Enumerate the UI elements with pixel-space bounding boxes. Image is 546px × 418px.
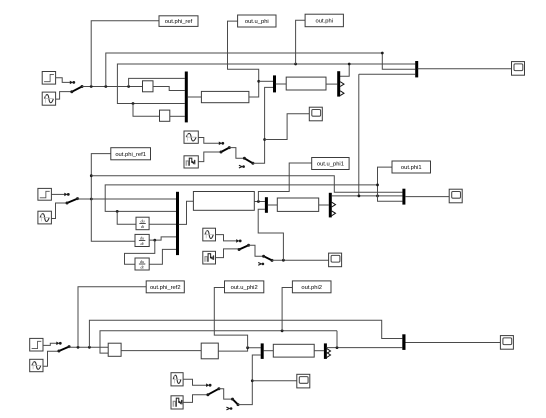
svg-text:out.u_phi1: out.u_phi1 bbox=[317, 162, 344, 168]
svg-text:out.phi1: out.phi1 bbox=[401, 165, 422, 171]
svg-text:out.phi_ref: out.phi_ref bbox=[165, 19, 193, 25]
svg-text:out.phi_ref2: out.phi_ref2 bbox=[150, 285, 181, 291]
svg-text:out.phi_ref1: out.phi_ref1 bbox=[115, 152, 146, 158]
svg-text:out.phi: out.phi bbox=[316, 18, 333, 24]
svg-text:out.u_phi2: out.u_phi2 bbox=[231, 285, 258, 291]
svg-text:out.phi2: out.phi2 bbox=[301, 285, 322, 291]
svg-text:out.u_phi: out.u_phi bbox=[245, 19, 269, 25]
